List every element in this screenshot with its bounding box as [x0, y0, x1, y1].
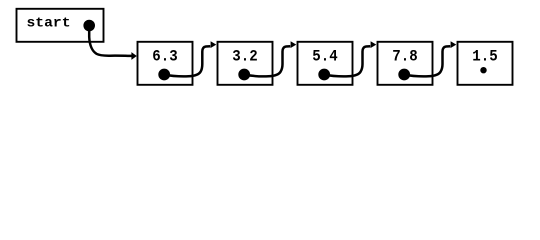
- node 6.3 pointer dot: [158, 69, 170, 81]
- wire node 7.8 to node 1.5: [404, 46, 450, 76]
- svg-text:start: start: [27, 16, 71, 32]
- node box 1.5: [458, 42, 513, 85]
- start box: [17, 9, 104, 42]
- arrowhead into node 6.3: [131, 52, 136, 60]
- svg-text:3.2: 3.2: [232, 47, 257, 65]
- node box 3.2: [218, 42, 273, 85]
- node box 6.3: [138, 42, 193, 85]
- node box 7.8: [378, 42, 433, 85]
- wire node 3.2 to node 5.4: [244, 46, 290, 76]
- start pointer dot: [83, 20, 95, 32]
- svg-text:5.4: 5.4: [312, 47, 338, 65]
- wire start to node 6.3: [89, 26, 131, 56]
- arrowhead into node 7.8: [371, 41, 377, 48]
- svg-text:7.8: 7.8: [392, 47, 417, 65]
- arrowhead into node 1.5: [451, 41, 457, 48]
- arrowhead into node 3.2: [211, 41, 217, 48]
- wire node 5.4 to node 7.8: [324, 46, 370, 76]
- svg-text:1.5: 1.5: [472, 47, 497, 65]
- null terminator dot in node 1.5: [480, 67, 486, 73]
- wire node 6.3 to node 3.2: [164, 46, 210, 76]
- node 5.4 pointer dot: [318, 69, 330, 81]
- svg-text:6.3: 6.3: [152, 47, 177, 65]
- node box 5.4: [298, 42, 353, 85]
- node 3.2 pointer dot: [238, 69, 250, 81]
- node 7.8 pointer dot: [398, 69, 410, 81]
- arrowhead into node 5.4: [291, 41, 297, 48]
